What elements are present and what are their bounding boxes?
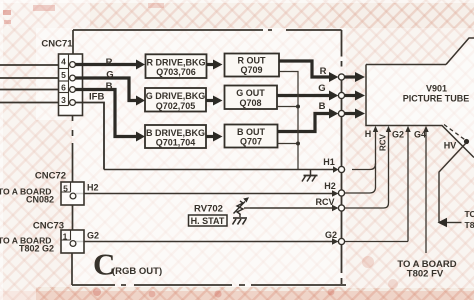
block R OUT Q709 <box>225 54 280 77</box>
thick wire B OUT to B socket pin <box>278 114 331 132</box>
wire IFB from pin 3 <box>73 103 105 170</box>
board boundary: bottom chain line <box>72 284 346 286</box>
svg-text:G4: G4 <box>414 130 426 140</box>
svg-text:G DRIVE,BKG: G DRIVE,BKG <box>146 91 206 101</box>
svg-text:6: 6 <box>61 83 66 93</box>
HV dashed line and anode dot <box>444 125 466 141</box>
svg-text:CNC71: CNC71 <box>41 39 73 50</box>
svg-text:B: B <box>319 101 326 112</box>
thin feedback line from G OUT <box>277 106 298 108</box>
svg-text:B DRIVE,BKG: B DRIVE,BKG <box>146 128 205 138</box>
tube pin G2 lead <box>407 131 409 242</box>
svg-text:H2: H2 <box>87 183 99 193</box>
svg-text:CN082: CN082 <box>26 195 54 205</box>
tube pin H lead <box>370 131 376 193</box>
svg-text:R DRIVE,BKG: R DRIVE,BKG <box>146 58 205 68</box>
picture tube V901 outline <box>366 38 474 158</box>
svg-text:G: G <box>318 83 325 94</box>
svg-text:PICTURE TUBE: PICTURE TUBE <box>403 94 470 104</box>
svg-text:RCV: RCV <box>315 197 334 207</box>
ground of RV702 <box>233 218 248 225</box>
svg-text:CNC73: CNC73 <box>33 221 64 232</box>
socket pin H1 <box>338 166 344 172</box>
arrow B into picture tube <box>345 112 356 115</box>
socket pin G2 <box>338 238 344 244</box>
svg-text:4: 4 <box>61 57 66 67</box>
socket pin G <box>338 92 344 98</box>
svg-text:Q709: Q709 <box>240 65 262 75</box>
block B DRIVE Q701,704 <box>145 125 206 148</box>
svg-text:Q703,706: Q703,706 <box>156 67 196 77</box>
wire G from pin 5 to G DRIVE <box>73 78 138 101</box>
wire H2 from CNC72 to socket and H lead <box>76 193 333 195</box>
board boundary: left chain line through connectors <box>71 116 74 286</box>
junction dot B feedback <box>296 142 300 146</box>
svg-text:Q702,705: Q702,705 <box>156 101 196 111</box>
board boundary: right bus segment with chain break <box>341 30 343 284</box>
svg-text:G: G <box>106 70 113 81</box>
svg-text:G2: G2 <box>87 231 99 241</box>
socket pin R <box>338 74 344 80</box>
wire RCV from RV702 to socket and RCV lead <box>250 207 333 209</box>
svg-text:T8: T8 <box>465 220 474 230</box>
thick wire G OUT to G socket pin <box>277 94 330 97</box>
arrow R DRIVE to R OUT <box>207 63 215 66</box>
svg-text:B OUT: B OUT <box>237 127 266 137</box>
svg-text:HV: HV <box>444 141 457 151</box>
svg-text:B: B <box>106 81 113 92</box>
arrow G into picture tube <box>345 94 356 97</box>
potentiometer RV702 <box>234 201 246 215</box>
block R DRIVE Q703,706 <box>146 54 207 78</box>
svg-text:5: 5 <box>63 184 68 194</box>
svg-text:RCV: RCV <box>379 133 388 151</box>
svg-text:T802 G2: T802 G2 <box>19 244 54 254</box>
socket pin RCV <box>338 205 344 211</box>
svg-text:R: R <box>106 57 113 68</box>
svg-text:3: 3 <box>61 95 66 105</box>
svg-text:H1: H1 <box>323 157 335 167</box>
connector CNC73 <box>61 230 84 253</box>
arrow B DRIVE to B OUT <box>206 135 214 138</box>
svg-text:G2: G2 <box>392 130 404 140</box>
thin feedback line from R OUT down <box>279 72 298 170</box>
pin circles CNC71 <box>70 62 76 106</box>
svg-text:(RGB OUT): (RGB OUT) <box>112 266 162 277</box>
H. STAT box <box>189 215 228 226</box>
svg-text:CNC72: CNC72 <box>35 171 66 182</box>
svg-text:1: 1 <box>63 232 68 242</box>
H1 curve into H lead <box>352 164 376 170</box>
svg-text:V901: V901 <box>426 84 447 94</box>
thick wire R OUT to R socket pin <box>279 61 330 77</box>
junction dot G feedback <box>296 105 300 109</box>
tube pin G4 lead <box>425 131 427 253</box>
svg-text:IFB: IFB <box>89 92 104 103</box>
wire H1 horizontal collector <box>104 169 334 171</box>
svg-text:Q708: Q708 <box>239 98 261 108</box>
HV lead down to arrow <box>439 143 466 223</box>
faint red marks top-left corner <box>3 10 11 15</box>
board boundary: top chain line <box>73 30 342 54</box>
block B OUT Q707 <box>225 125 278 148</box>
connector CNC72 <box>61 182 84 205</box>
wire B from pin 6 to B DRIVE <box>73 90 138 137</box>
svg-text:R OUT: R OUT <box>238 55 267 65</box>
svg-text:T802 FV: T802 FV <box>407 269 444 280</box>
thin feedback line from B OUT <box>278 143 299 145</box>
tube pin RCV lead <box>384 131 389 208</box>
svg-text:G2: G2 <box>325 230 337 240</box>
block G OUT Q708 <box>225 86 278 110</box>
svg-text:H. STAT: H. STAT <box>191 216 225 226</box>
socket pin H2 <box>338 190 344 196</box>
annotation arrow at HV lead <box>446 222 462 224</box>
wire G2 from CNC73 to socket and G2 lead <box>76 241 333 243</box>
connector CNC71 <box>59 54 83 116</box>
block G DRIVE Q702,705 <box>145 88 206 112</box>
svg-text:Q707: Q707 <box>240 137 262 147</box>
arrow R into picture tube <box>345 75 356 78</box>
faint red dots bottom strip <box>93 288 101 296</box>
svg-text:H2: H2 <box>324 181 336 191</box>
svg-text:R: R <box>320 66 327 77</box>
ground on H1 line <box>302 170 318 182</box>
svg-text:H: H <box>365 129 372 139</box>
svg-text:G OUT: G OUT <box>236 88 265 98</box>
svg-text:RV702: RV702 <box>194 204 223 215</box>
wire R from pin 4 to R DRIVE <box>73 63 138 66</box>
stub wires entering from left edge <box>0 65 59 103</box>
socket pin B <box>338 110 344 116</box>
svg-text:5: 5 <box>61 70 66 80</box>
arrow G DRIVE to G OUT <box>206 99 214 102</box>
svg-text:Q701,704: Q701,704 <box>156 138 196 148</box>
svg-text:TO: TO <box>465 209 474 219</box>
